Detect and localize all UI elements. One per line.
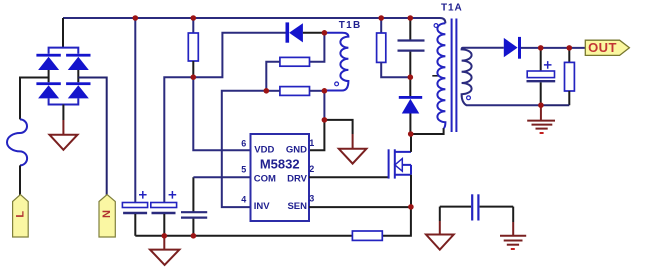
resistor R1 startup — [188, 18, 198, 77]
wire bridge AC right — [78, 78, 106, 196]
node divider — [264, 88, 270, 94]
earth ground E2 — [500, 236, 526, 249]
node out-R5 — [567, 45, 573, 51]
ground GND2 — [339, 149, 367, 164]
node rail-C1 — [133, 15, 139, 21]
terminal L — [13, 195, 29, 238]
wire pin5 COM — [193, 176, 250, 178]
node aux-gnd — [322, 117, 328, 123]
T1A primary polarity dot — [434, 24, 438, 28]
svg-text:6: 6 — [241, 138, 246, 148]
node rail-R4 — [378, 15, 384, 21]
primary tap tick — [432, 75, 439, 77]
resistor R3 divider bottom — [280, 87, 310, 96]
capacitor C2 electrolytic — [151, 191, 177, 213]
wire bridge top stub — [62, 18, 64, 48]
wire feedback to pin4 INV — [222, 91, 266, 207]
wire R3 left — [266, 90, 280, 92]
diode bridge upper-right — [66, 54, 90, 70]
wire VDD node down to pin6 VDD — [193, 77, 250, 150]
node aux-bottom — [322, 88, 328, 94]
inductor L1 squiggle — [7, 119, 27, 165]
node rail-R1 — [191, 15, 197, 21]
transformer T1A primary winding — [437, 23, 445, 128]
wire C2 bottom — [163, 214, 165, 236]
node secondary-gnd — [538, 102, 544, 108]
wire bridge left inter-diode stub — [48, 70, 50, 82]
node rail-gnd4 — [162, 233, 168, 239]
transformer T1A core — [452, 19, 457, 133]
capacitor C4 snubber — [398, 18, 425, 77]
svg-text:5: 5 — [241, 165, 246, 175]
node snubber — [408, 74, 414, 80]
svg-text:4: 4 — [241, 194, 246, 204]
svg-text:COM: COM — [254, 173, 276, 184]
resistor R6 current sense — [352, 231, 382, 240]
wire bulk cap C1 feed — [134, 18, 136, 203]
node out-C5 — [538, 45, 544, 51]
bridge rectifier BR1 top box — [49, 48, 79, 54]
svg-text:L: L — [14, 211, 26, 218]
node VDD — [191, 74, 197, 80]
wire D4 cathode to output node — [521, 47, 585, 49]
wire bottom primary ground rail — [135, 207, 411, 236]
resistor R5 output load — [541, 48, 575, 105]
diode bridge lower-left — [36, 82, 60, 98]
node source — [408, 204, 414, 210]
IC U1 M5832 body — [251, 134, 310, 221]
ground GND1 under bridge — [50, 135, 78, 150]
svg-text:SEN: SEN — [287, 201, 307, 212]
capacitor C1 electrolytic — [122, 191, 147, 213]
wire to GND2 — [324, 120, 352, 134]
terminal OUT flag — [585, 40, 629, 55]
svg-text:INV: INV — [254, 201, 270, 212]
wire pin3 SEN to source node — [309, 206, 411, 208]
wire C6 right to earth E2 — [512, 207, 514, 222]
svg-text:2: 2 — [309, 164, 314, 174]
transistor Q1 MOSFET — [389, 149, 411, 178]
wire aux node down to R2 — [310, 33, 325, 62]
wire bridge AC left — [20, 78, 49, 120]
diode D3 clamp — [399, 96, 422, 114]
T1A secondary polarity dot — [467, 96, 471, 100]
terminal N — [99, 195, 115, 238]
svg-text:1: 1 — [309, 138, 314, 148]
ground GND3 — [426, 235, 454, 250]
svg-text:3: 3 — [309, 193, 314, 203]
svg-text:T1B: T1B — [339, 20, 362, 31]
capacitor C6 Y-cap — [440, 194, 513, 220]
transformer T1B aux winding — [324, 33, 348, 91]
bridge rectifier BR1 bottom box — [49, 98, 79, 104]
node drain — [408, 131, 414, 137]
wire COM pin to C3 — [192, 177, 194, 212]
svg-text:OUT: OUT — [588, 40, 617, 55]
svg-text:N: N — [101, 210, 113, 218]
wire aux return down — [323, 91, 325, 120]
wire drain node to primary bottom — [411, 128, 444, 134]
node aux-top — [322, 30, 328, 36]
wire bridge right inter-diode stub — [77, 70, 79, 82]
svg-text:VDD: VDD — [254, 145, 274, 156]
diode D2 aux rectifier — [286, 22, 303, 42]
node rail-C4 — [408, 15, 414, 21]
IC U1 pin labels — [254, 145, 308, 212]
diode D4 output rectifier — [504, 37, 521, 59]
wire Q1 source down to sense node — [410, 175, 412, 207]
capacitor C5 output electrolytic — [527, 61, 556, 81]
wire output node down to C5 — [540, 48, 542, 71]
wire R3 right to aux return — [310, 90, 325, 92]
capacitor C3 — [181, 212, 207, 217]
earth ground E1 secondary — [527, 105, 555, 133]
wire pin2 DRV to gate — [309, 176, 389, 178]
wire top rail VIN+ — [63, 18, 445, 23]
wire inductor to L terminal — [19, 165, 21, 195]
svg-text:M5832: M5832 — [260, 157, 300, 172]
T1B polarity dot — [335, 82, 339, 86]
wire D3 anode to drain node — [409, 114, 411, 135]
diode bridge lower-right — [66, 82, 90, 98]
wire VDD node to C2 — [164, 77, 193, 202]
node rail-C3 — [191, 233, 197, 239]
resistor R4 snubber — [377, 18, 411, 77]
svg-text:DRV: DRV — [287, 173, 308, 184]
wire D2 anode to aux node — [303, 32, 325, 34]
ground GND4 on bottom rail — [150, 236, 179, 265]
wire Q1 drain up to clamp node — [410, 134, 412, 152]
wire aux return to pin1 GND — [309, 120, 324, 150]
IC U1 pin numbers — [241, 138, 314, 205]
wire C5 bottom to secondary ground node — [540, 82, 542, 105]
wire C1 bottom — [134, 214, 136, 236]
diode bridge upper-left — [36, 54, 60, 70]
svg-text:T1A: T1A — [441, 3, 463, 14]
transformer T1A secondary winding — [462, 48, 541, 105]
wire R2 left down to R3 — [266, 62, 280, 91]
resistor R2 divider top — [280, 57, 310, 66]
svg-text:GND: GND — [286, 145, 307, 156]
wire C6 left to GND3 — [439, 207, 441, 221]
wire VDD node to diode D2 — [193, 33, 285, 77]
wire snubber node to D3 — [409, 77, 411, 96]
wire bridge negative to ground — [62, 105, 64, 121]
wire C3 bottom — [192, 219, 194, 236]
